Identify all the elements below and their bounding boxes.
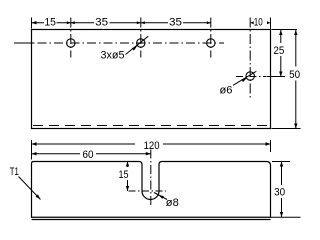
arrows dim 60 [32,152,37,155]
arrows dim 15 bottom view [126,162,129,167]
svg-text:30: 30 [274,186,285,198]
leader for ø8 [154,193,167,200]
extension line to 25 dim [267,76,286,78]
leader arrow 3xø5 [132,46,137,51]
leader for 3xø5 [126,36,149,54]
hole 2 (ø5) [137,39,145,47]
svg-text:ø8: ø8 [166,197,179,209]
arrows dim 15/35/35 [32,21,37,24]
hole 3 (ø5) [207,39,215,47]
leader for ø6 [233,71,256,85]
arrows dim 50 [294,30,297,35]
bottom view second bottom line [32,219,271,221]
bottom view outline [32,162,271,218]
svg-text:35: 35 [169,16,182,28]
30 dimension line [281,162,283,218]
leader for T1 [19,177,41,200]
svg-text:T1: T1 [10,166,19,178]
leader arrow ø8 [158,195,164,199]
arrows dim 10 [250,21,254,24]
bottom edge extension for 30 [271,216,301,218]
right extension of 120 dim [270,140,272,152]
arrows dim 120 [32,142,37,145]
hole 3 vertical centerline [210,18,212,58]
svg-text:15: 15 [44,16,56,28]
50 dimension line [295,30,297,129]
hidden edge (dashed) near bottom of top view [33,125,270,127]
bottom edge extension to right dims [272,128,301,130]
svg-text:ø6: ø6 [220,85,233,97]
slot vertical centerline [150,150,152,206]
slot horizontal centerline [129,190,167,192]
25 dimension line [280,30,282,77]
ø6 horizontal centerline [236,76,266,78]
leader arrow ø6 [241,78,247,82]
right edge extension above plate [270,18,272,30]
svg-text:10: 10 [254,16,263,28]
svg-text:25: 25 [273,45,284,57]
svg-text:120: 120 [144,140,160,152]
svg-text:35: 35 [95,16,108,28]
svg-text:15: 15 [119,169,129,181]
hole 1 (ø5) [67,39,75,47]
60 dimension line [32,153,151,155]
hole ø6 [246,72,254,80]
main horizontal centerline through 3 holes [14,42,35,44]
15 dimension line (bottom view) [127,162,129,192]
top edge extension to right dims [272,29,298,31]
top view plate outline [32,30,271,129]
hole 1 vertical centerline [70,18,72,58]
svg-text:50: 50 [289,69,300,81]
arrows dim 30 [280,162,283,167]
120 dimension line [32,143,271,145]
svg-text:3xø5: 3xø5 [101,49,125,61]
hole 2 vertical centerline [140,18,142,58]
left extension line [31,18,33,29]
left extension of bottom view dims [31,140,33,160]
ø6 vertical centerline [249,18,251,100]
leader arrow T1 [36,194,41,199]
svg-text:60: 60 [83,149,94,161]
top edge extension for 30 [272,161,290,163]
dimension line 15/35/35 [32,22,211,24]
arrows dim 25 [279,30,282,35]
